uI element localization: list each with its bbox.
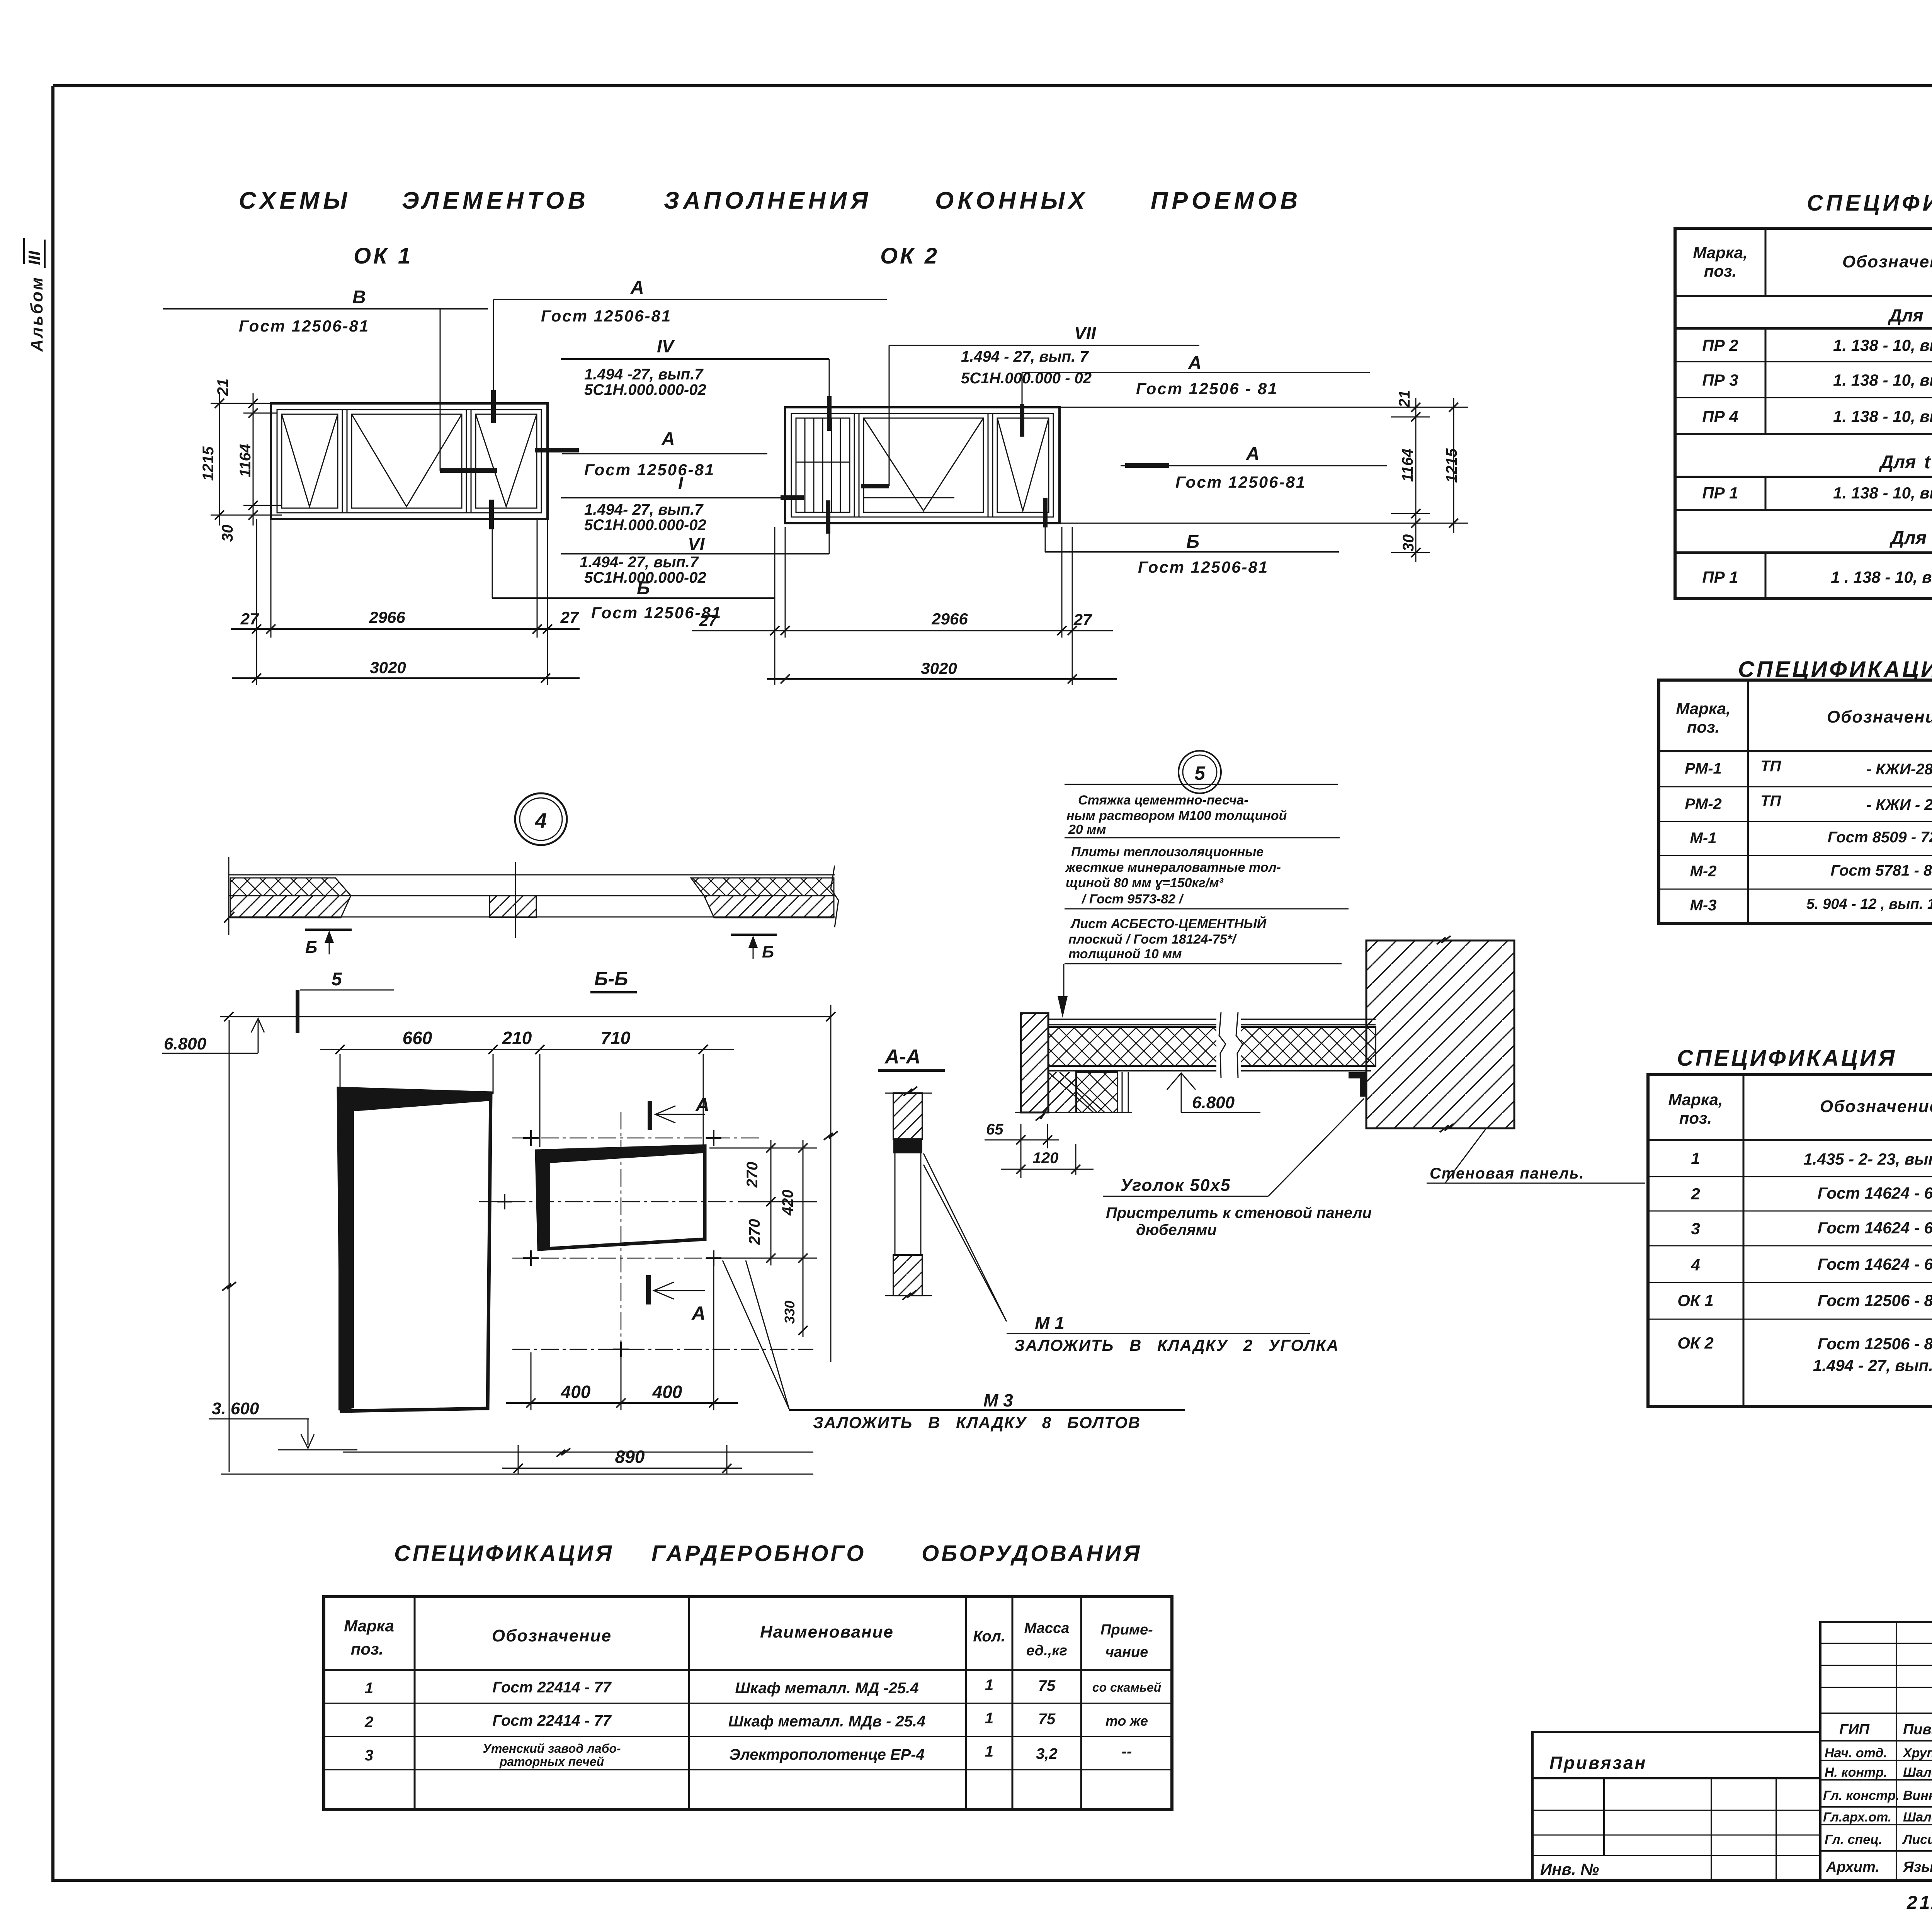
node 4 reference circle [515,793,567,845]
svg-text:Нач. отд.: Нач. отд. [1825,1746,1887,1760]
label OK1 [354,243,413,269]
svg-text:27: 27 [240,610,259,628]
svg-text:поз.: поз. [1704,262,1736,280]
svg-text:120: 120 [1033,1150,1059,1167]
svg-text:- КЖИ - 290 -СБ: - КЖИ - 290 -СБ [1866,796,1932,813]
table 4 header texts [344,1617,1153,1660]
svg-text:плоский / Гост 18124-75*/: плоский / Гост 18124-75*/ [1068,932,1237,947]
node 5 elevation 6.800 [1167,1073,1260,1112]
table 2 row М-3 [1690,895,1932,916]
svg-text:ед.,кг: ед.,кг [1026,1643,1067,1659]
svg-text:Гл. спец.: Гл. спец. [1825,1832,1883,1847]
svg-text:М 1: М 1 [1035,1313,1065,1333]
album III vertical label [24,238,46,352]
window OK1 pane 3 with V opening symbol [476,414,537,508]
svg-text:Приме-: Приме- [1100,1622,1153,1638]
title block signature table [1820,1622,1932,1880]
svg-text:1: 1 [985,1677,993,1694]
svg-text:раторных печей: раторных печей [499,1755,604,1769]
node 4 section mark Б left [305,930,352,957]
OK1 callout В [163,287,497,471]
node 5 floor slab sheet lines [1048,1066,1376,1071]
callout М1 with leaders [923,1153,1339,1354]
svg-text:2: 2 [1690,1185,1700,1203]
OK2 callout Б bottom [1045,498,1339,576]
node 4 left insulation block crosshatched [230,878,351,896]
svg-text:- КЖИ-280-СБ: - КЖИ-280-СБ [1866,761,1932,778]
elevation mark 6.800 [162,1019,264,1053]
node 5 steel angle 50x5 [1349,1072,1366,1097]
section title Б-Б [590,968,637,992]
window OK2 pane 3 with V opening symbol [997,418,1049,512]
svg-text:420: 420 [779,1190,796,1216]
svg-text:А: А [630,277,644,298]
table 1 grid [1675,228,1932,599]
svg-text:Плиты теплоизоляционные: Плиты теплоизоляционные [1071,845,1264,859]
label OK2 [880,243,939,269]
Б-Б top datum line [220,1012,835,1021]
svg-text:ПР 3: ПР 3 [1702,371,1738,389]
svg-text:А: А [1246,444,1260,464]
svg-text:3,2: 3,2 [1036,1745,1058,1762]
svg-text:ГАРДЕРОБНОГО: ГАРДЕРОБНОГО [651,1541,866,1566]
svg-text:ным раствором М100 толщиной: ным раствором М100 толщиной [1066,808,1287,823]
svg-text:ГИП: ГИП [1839,1721,1870,1738]
table 1 temperature band 2 [1879,452,1932,473]
svg-text:1. 138 - 10, вып. 1: 1. 138 - 10, вып. 1 [1833,407,1932,425]
node 5 left wall strip hatched [1021,1013,1048,1112]
svg-text:270: 270 [746,1219,763,1245]
table 3 grid [1648,1075,1932,1406]
table 1 row ПР4 [1702,407,1932,428]
svg-text:1. 138 - 10, вып. 1: 1. 138 - 10, вып. 1 [1833,371,1932,389]
OK2 bottom dimensions 27 2966 27 and 3020 [692,527,1117,685]
svg-text:Гост 12506-81: Гост 12506-81 [584,461,715,479]
svg-text:Привязан: Привязан [1549,1753,1647,1773]
svg-text:ПР 1: ПР 1 [1702,484,1738,502]
svg-text:1: 1 [985,1710,993,1727]
svg-text:6.800: 6.800 [164,1034,207,1053]
table 2 grid [1659,680,1932,923]
table 3 row ОК2 [1677,1334,1932,1376]
svg-text:СХЕМЫ: СХЕМЫ [239,187,351,214]
svg-text:Пивторак: Пивторак [1903,1721,1932,1738]
svg-text:А: А [1188,353,1202,373]
svg-text:со скамьей: со скамьей [1092,1680,1161,1694]
svg-text:СПЕЦИФИКАЦИЯ: СПЕЦИФИКАЦИЯ [394,1541,614,1566]
svg-text:Лист АСБЕСТО-ЦЕМЕНТНЫЙ: Лист АСБЕСТО-ЦЕМЕНТНЫЙ [1070,916,1267,931]
node 5 label стеновая панель [1427,1129,1645,1183]
OK1 callout IV [561,336,829,431]
svg-text:Марка,: Марка, [1693,243,1747,262]
svg-text:ПР 1: ПР 1 [1702,568,1738,586]
table 2 row М-1 [1690,829,1932,849]
svg-text:М-2: М-2 [1690,863,1717,880]
svg-text:Гост 22414 - 77: Гост 22414 - 77 [492,1712,612,1729]
svg-text:Для t°н = - 20°С: Для t°н = - 20°С [1889,528,1932,548]
svg-text:Обозначение: Обозначение [1842,252,1932,271]
Б-Б axis lines [479,1112,813,1357]
main title [239,187,1301,214]
svg-text:27: 27 [1073,611,1092,629]
svg-text:VII: VII [1074,323,1096,343]
node 5 dimension 65 [985,1121,1059,1178]
svg-text:65: 65 [986,1121,1003,1138]
window OK1 pane 2 with V opening symbol [352,414,462,508]
svg-text:Электрополотенце ЕР-4: Электрополотенце ЕР-4 [729,1746,925,1763]
svg-text:Альбом: Альбом [27,276,46,352]
svg-text:30: 30 [1400,534,1417,552]
table 1 header texts [1693,239,1932,293]
svg-text:Лисичкин: Лисичкин [1902,1832,1932,1847]
OK2 callout А middle [1121,444,1387,491]
svg-text:А: А [695,1094,709,1116]
svg-text:Шкаф металл. МДв - 25.4: Шкаф металл. МДв - 25.4 [728,1713,926,1730]
svg-text:5: 5 [1194,762,1206,784]
table 1 temperature band 3 [1889,528,1932,548]
node 4 right masonry block hatched [704,896,834,918]
node 5 wall panel hatched [1366,936,1514,1132]
table 2 title [1738,656,1932,682]
svg-text:Гост 12506-81: Гост 12506-81 [541,307,672,325]
Б-Б bottom dimensions 400 400 890 [502,1264,742,1474]
svg-text:Обозначение: Обозначение [1820,1097,1932,1116]
svg-text:ОКОННЫХ: ОКОННЫХ [935,187,1088,214]
svg-text:В: В [352,287,366,308]
svg-text:III: III [25,251,44,265]
svg-text:Гост 14624 - 69: Гост 14624 - 69 [1818,1219,1932,1237]
svg-text:ТП: ТП [1760,758,1781,775]
svg-text:Гост 12506 - 81: Гост 12506 - 81 [1818,1291,1932,1310]
svg-text:дюбелями: дюбелями [1136,1221,1217,1238]
svg-text:Обозначение: Обозначение [1827,707,1932,726]
node 4 left masonry block hatched [224,896,351,923]
svg-text:ПР 4: ПР 4 [1702,407,1738,425]
OK1 callout А top [493,277,887,423]
svg-text:5. 904 - 12 , вып. 1 - 35: 5. 904 - 12 , вып. 1 - 35 [1806,896,1932,912]
svg-text:Инв. №: Инв. № [1540,1860,1599,1878]
svg-text:ПРОЕМОВ: ПРОЕМОВ [1151,187,1301,214]
svg-text:1215: 1215 [200,446,217,481]
svg-text:30: 30 [219,525,236,542]
svg-text:Пристрелить к стеновой панел: Пристрелить к стеновой панели [1106,1204,1372,1221]
table 1 row ПР3 [1702,371,1932,391]
window OK2 pane 2 with V opening symbol [864,418,983,512]
svg-text:РМ-1: РМ-1 [1685,760,1722,777]
svg-text:1215: 1215 [1443,448,1460,483]
svg-text:21177- 03: 21177- 03 [1906,1893,1932,1913]
table 3 row 2 [1690,1183,1932,1204]
node 5 dimension 120 [1001,1144,1094,1175]
svg-text:ОБОРУДОВАНИЯ: ОБОРУДОВАНИЯ [922,1541,1142,1566]
svg-text:21: 21 [1396,390,1413,408]
window OK2 pane 1 glass-block infill with vertical hatch [796,418,850,512]
node 5 floor slab insulation crosshatched [1048,1027,1376,1066]
svg-text:ОК 2: ОК 2 [880,243,939,269]
table 2 row РМ-1 [1685,758,1932,779]
svg-text:710: 710 [601,1028,631,1048]
svg-text:1.494 - 27, вып. 7: 1.494 - 27, вып. 7 [1813,1356,1932,1374]
svg-text:Марка: Марка [344,1617,394,1635]
Б-Б small door leaf section [537,1146,705,1249]
OK2 callout А top [1022,353,1370,437]
svg-text:толщиной 10 мм: толщиной 10 мм [1068,947,1182,961]
svg-text:ЗАЛОЖИТЬ В КЛАДКУ 8 БОЛТОВ: ЗАЛОЖИТЬ В КЛАДКУ 8 БОЛТОВ [813,1413,1141,1432]
svg-text:чание: чание [1105,1644,1148,1660]
svg-text:Для t°н = -30°С ; -40°С .: Для t°н = -30°С ; -40°С . [1879,452,1932,473]
node 5 insulation block under slab crosshatched [1076,1072,1128,1112]
svg-text:Стяжка цементно-песча-: Стяжка цементно-песча- [1078,793,1248,808]
svg-text:Гост 22414 - 77: Гост 22414 - 77 [492,1679,612,1696]
node 5 floor slab top screed lines [1048,1019,1376,1025]
OK1 left dimension chain [200,379,282,542]
svg-text:660: 660 [403,1028,432,1048]
table 3 row 4 [1690,1254,1932,1276]
svg-text:3: 3 [1691,1219,1700,1238]
svg-text:ПР 2: ПР 2 [1702,336,1738,354]
table 4 grid [324,1597,1172,1810]
svg-text:Язычьян: Язычьян [1903,1859,1932,1875]
svg-text:Б: Б [637,578,650,599]
window OK2 outer frame [785,407,1060,523]
table 1 row ПР1 [1702,483,1932,503]
table 3 header texts [1668,1081,1932,1137]
svg-text:Кол.: Кол. [973,1628,1005,1645]
svg-text:то же: то же [1105,1713,1148,1729]
svg-text:1. 138 - 10, вып. 1: 1. 138 - 10, вып. 1 [1833,484,1932,502]
svg-text:75: 75 [1038,1677,1056,1694]
table 4 title [394,1541,1142,1566]
svg-text:2: 2 [364,1714,373,1731]
svg-text:Уголок 50х5: Уголок 50х5 [1121,1176,1231,1195]
svg-text:Гост 8509 - 72*: Гост 8509 - 72* [1828,829,1932,846]
svg-text:СПЕЦИФИКАЦИЯ: СПЕЦИФИКАЦИЯ [1807,190,1932,216]
window OK1 pane 1 with V opening symbol [282,414,338,508]
svg-text:6.800: 6.800 [1192,1093,1235,1112]
svg-text:Гост 14624 - 69: Гост 14624 - 69 [1818,1255,1932,1273]
svg-text:Наименование: Наименование [760,1622,894,1641]
svg-text:2966: 2966 [369,608,405,626]
svg-text:Обозначение: Обозначение [492,1626,612,1645]
svg-text:5С1Н.000.000-02: 5С1Н.000.000-02 [584,517,706,534]
svg-text:Гост 12506-81: Гост 12506-81 [1138,558,1269,576]
svg-text:Гл.арх.от.: Гл.арх.от. [1823,1810,1891,1825]
svg-text:щиной 80 мм ɣ=150кг/м³: щиной 80 мм ɣ=150кг/м³ [1066,876,1224,890]
svg-text:РМ-2: РМ-2 [1685,796,1722,813]
svg-text:Для t°н = - 20°С ; -30°С ; -: Для t°н = - 20°С ; -30°С ; - 40°С . [1888,305,1932,325]
svg-text:330: 330 [782,1301,798,1324]
svg-text:3020: 3020 [370,658,406,677]
svg-text:Шаломеев: Шаломеев [1903,1765,1932,1780]
svg-text:75: 75 [1038,1711,1056,1728]
node 5 note уголок 50x5 [1103,1099,1372,1238]
table 3 row 3 [1691,1218,1932,1239]
svg-text:Утенский завод лабо-: Утенский завод лабо- [483,1742,621,1755]
svg-text:1: 1 [985,1743,993,1760]
svg-text:27: 27 [560,608,579,626]
node 5 slab break symbol [1216,1012,1243,1078]
А-А jamb section top hatched part [885,1087,932,1153]
svg-text:1. 138 - 10, вып. 1: 1. 138 - 10, вып. 1 [1833,336,1932,354]
Б-Б floor lines [221,1448,813,1474]
table 1 temperature band 1 [1888,305,1932,325]
OK1 callout Б [492,500,774,622]
table 3 row ОК1 [1677,1291,1932,1311]
svg-text:1.494- 27, вып.7: 1.494- 27, вып.7 [584,501,704,518]
svg-text:1 . 138 - 10, вып. 1: 1 . 138 - 10, вып. 1 [1831,568,1932,586]
svg-text:Б-Б: Б-Б [594,968,628,990]
svg-text:4: 4 [535,809,547,832]
svg-text:Б: Б [1186,532,1199,552]
window OK1 outer frame [271,403,548,519]
svg-text:СПЕЦИФИКАЦИЯ: СПЕЦИФИКАЦИЯ [1738,657,1932,682]
svg-text:поз.: поз. [1687,718,1719,736]
svg-text:ОК 1: ОК 1 [354,243,413,269]
bottom margin annotations [1906,1884,1932,1915]
table 2 row РМ-2 [1685,793,1932,814]
node 4 right insulation block crosshatched [691,878,834,896]
svg-text:1: 1 [365,1680,373,1697]
svg-text:поз.: поз. [1679,1109,1712,1127]
svg-text:400: 400 [652,1382,682,1402]
OK2 callout VII [861,323,1199,486]
svg-text:ЗАПОЛНЕНИЯ: ЗАПОЛНЕНИЯ [664,187,872,214]
svg-text:Гост 5781 - 82: Гост 5781 - 82 [1831,862,1932,879]
OK1 callout I [561,473,954,534]
table 4 row 2 [364,1710,1148,1731]
svg-text:М 3: М 3 [983,1390,1013,1410]
title block привязан box [1532,1732,1820,1880]
node 5 reference circle [1179,751,1221,793]
svg-text:ТП: ТП [1760,793,1781,810]
OK1 bottom dimensions 27 2966 27 and 3020 [231,519,580,685]
svg-text:20 мм: 20 мм [1068,822,1106,837]
table 2 header texts [1676,691,1932,749]
svg-text:Гл. констр.: Гл. констр. [1823,1788,1900,1803]
svg-text:1.494 -27, вып.7: 1.494 -27, вып.7 [584,366,704,383]
svg-text:Н. контр.: Н. контр. [1825,1765,1887,1780]
svg-text:5: 5 [332,969,342,990]
table 1 title [1807,190,1932,216]
node 4 lintel band lines [229,857,838,935]
svg-text:Гост 12506-81: Гост 12506-81 [239,317,369,335]
table 4 row 3 [365,1742,1132,1769]
svg-text:А: А [661,429,675,449]
svg-text:Масса: Масса [1024,1620,1070,1636]
node 4 section mark Б right [731,935,777,961]
svg-text:VI: VI [688,534,705,554]
table 1 row ПР1 second [1702,567,1932,588]
svg-text:27: 27 [699,611,718,629]
svg-text:400: 400 [561,1382,591,1402]
svg-text:жесткие минераловатные тол-: жесткие минераловатные тол- [1065,860,1281,875]
svg-text:21: 21 [214,379,231,396]
svg-text:890: 890 [615,1447,645,1467]
node 5 masonry under slab hatched [1015,1072,1132,1121]
window OK1 mullions [342,410,471,513]
А-А jamb section bottom hatched part [885,1255,932,1300]
svg-text:А: А [691,1303,706,1324]
svg-text:СПЕЦИФИКАЦИЯ: СПЕЦИФИКАЦИЯ [1677,1046,1897,1071]
OK1 callout VI [561,500,829,586]
svg-text:Архит.: Архит. [1826,1859,1879,1875]
А-А jamb thin middle part [895,1153,921,1255]
Б-Б section mark А top [650,1094,709,1130]
svg-text:1164: 1164 [237,444,254,477]
svg-text:--: -- [1122,1743,1132,1760]
svg-text:/ Гост 9573-82 /: / Гост 9573-82 / [1081,892,1184,906]
svg-text:ЗАЛОЖИТЬ В КЛАДКУ 2 УГОЛКА: ЗАЛОЖИТЬ В КЛАДКУ 2 УГОЛКА [1014,1336,1339,1354]
svg-text:5С1Н.000.000-02: 5С1Н.000.000-02 [584,381,706,398]
OK1 callout А right [535,429,767,479]
svg-text:Гост 12506-81: Гост 12506-81 [1175,473,1306,491]
svg-text:Шаломеев: Шаломеев [1903,1810,1932,1825]
svg-text:Шкаф металл. МД -25.4: Шкаф металл. МД -25.4 [735,1680,918,1697]
Б-Б section mark А bottom [648,1275,706,1324]
Б-Б top dimension line 660 210 710 [320,1028,734,1147]
svg-text:Гост 12506 - 81: Гост 12506 - 81 [1818,1335,1932,1353]
svg-text:М-1: М-1 [1690,830,1717,847]
svg-text:Гост 14624 - 69: Гост 14624 - 69 [1818,1184,1932,1202]
svg-text:Марка,: Марка, [1676,699,1730,718]
section title А-А [878,1046,945,1070]
svg-text:1.494- 27, вып.7: 1.494- 27, вып.7 [580,554,699,571]
svg-text:2966: 2966 [931,610,968,628]
svg-text:4: 4 [1690,1256,1700,1274]
svg-text:1164: 1164 [1399,449,1416,482]
svg-text:210: 210 [502,1028,532,1048]
Б-Б left overall extension line [222,1005,838,1472]
table 4 row 1 [365,1677,1161,1697]
svg-text:Б: Б [305,938,317,957]
node 5 cut mark with label 5 [298,969,394,1033]
svg-text:Винклер: Винклер [1903,1788,1932,1803]
svg-text:270: 270 [744,1162,761,1188]
svg-text:М-3: М-3 [1690,897,1717,914]
title block signature rows text [1823,1721,1932,1875]
elevation mark 3.600 [209,1399,357,1450]
svg-text:IV: IV [657,336,675,356]
svg-text:ЭЛЕМЕНТОВ: ЭЛЕМЕНТОВ [402,187,589,214]
callout М3 with leaders [723,1260,1185,1432]
svg-text:I: I [678,473,684,493]
table 1 row ПР2 [1702,335,1932,356]
table 3 title [1677,1046,1932,1071]
Б-Б right dimension chains 270 270 420 330 [709,1140,817,1337]
svg-text:Хрупало: Хрупало [1902,1746,1932,1760]
window OK2 mullions [854,413,993,517]
svg-text:1.494 - 27, вып. 7: 1.494 - 27, вып. 7 [961,348,1089,365]
node 5 note text block [1058,784,1349,1018]
svg-text:Гост 12506 - 81: Гост 12506 - 81 [1136,379,1278,398]
table 2 row М-2 [1690,862,1932,883]
table 3 row 1 ворота [1691,1148,1932,1170]
svg-text:Б: Б [762,942,774,961]
node 4 middle pier hatched [490,862,536,938]
svg-text:1: 1 [1691,1149,1700,1167]
svg-text:ОК 1: ОК 1 [1677,1291,1714,1310]
OK2 right dimension chain [1053,390,1468,562]
svg-text:А-А: А-А [884,1046,920,1068]
svg-text:3. 600: 3. 600 [212,1399,259,1418]
svg-text:3: 3 [365,1747,373,1764]
svg-text:ОК 2: ОК 2 [1677,1334,1714,1352]
Б-Б big door leaf section [338,1088,491,1411]
svg-text:1.435 - 2- 23, вып. 2: 1.435 - 2- 23, вып. 2 [1803,1150,1932,1168]
svg-text:3020: 3020 [921,659,957,677]
svg-text:поз.: поз. [351,1640,383,1658]
svg-text:Марка,: Марка, [1668,1090,1723,1109]
